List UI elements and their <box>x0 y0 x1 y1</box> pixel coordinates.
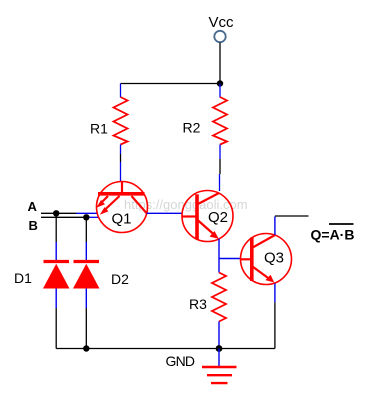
junction node R2 top <box>217 80 223 86</box>
label B <box>29 218 38 233</box>
label GND <box>166 353 196 369</box>
transistor Q1 <box>96 182 147 233</box>
diode D2 <box>73 262 100 289</box>
junction node input B <box>83 214 89 220</box>
svg-text:Vcc: Vcc <box>209 14 235 31</box>
wire Q1 collector stub top <box>120 162 122 182</box>
svg-text:R1: R1 <box>90 121 108 137</box>
label Q3 <box>264 250 284 267</box>
label Vcc <box>209 14 235 31</box>
label Q1 <box>112 211 132 228</box>
transistor Q3 <box>241 234 292 285</box>
resistor R2 <box>213 97 227 145</box>
svg-text:Q3: Q3 <box>264 250 284 267</box>
wire input A <box>41 212 98 214</box>
svg-text:D2: D2 <box>111 271 129 287</box>
wire input B <box>41 216 99 218</box>
wire D1 bottom stub <box>55 289 57 309</box>
wire output <box>275 215 309 217</box>
ground <box>202 349 237 384</box>
wire Vcc vertical <box>219 43 221 85</box>
wire ground rail <box>56 348 275 350</box>
svg-text:GND: GND <box>166 353 196 369</box>
wire D2 top stub <box>85 242 87 262</box>
label output Q=A·B <box>311 224 355 243</box>
transistor Q2 <box>182 191 233 242</box>
wire input B vertical <box>85 217 87 242</box>
junction node R3 ground <box>216 345 223 352</box>
wire D1 to ground rail <box>55 308 57 349</box>
label D2 <box>111 271 129 287</box>
wire R1 to Q1 <box>120 154 122 162</box>
resistor R1 <box>114 97 128 145</box>
wire Q1 collector to Q2 base <box>147 212 182 214</box>
wire D2 bottom stub <box>85 289 87 309</box>
label R1 <box>90 121 108 137</box>
label A <box>28 199 38 214</box>
wire R3 bottom stub <box>218 322 220 349</box>
wire R1 top stub <box>120 84 122 98</box>
wire Q2 collector stub top <box>219 174 221 191</box>
wire input A vertical <box>55 213 57 242</box>
svg-text:A: A <box>28 199 38 214</box>
svg-text:R3: R3 <box>189 296 207 312</box>
wire Q3 collector stub <box>274 217 276 236</box>
resistor R3 <box>212 273 226 322</box>
label Q2 <box>208 209 228 226</box>
svg-text:Q2: Q2 <box>208 209 228 226</box>
label R3 <box>189 296 207 312</box>
watermark <box>124 197 248 212</box>
svg-text:D1: D1 <box>14 270 32 286</box>
svg-text:R2: R2 <box>183 120 201 136</box>
wire top horizontal <box>121 83 221 85</box>
wire Q2 emitter to Q3 base <box>219 258 241 260</box>
svg-text:Q=A·B: Q=A·B <box>311 227 355 243</box>
junction node input A <box>53 210 59 216</box>
wire R2 top stub <box>219 84 221 98</box>
wire Q2 emitter stub <box>218 239 220 273</box>
label D1 <box>14 270 32 286</box>
diode D1 <box>43 262 70 289</box>
svg-text:Q1: Q1 <box>112 211 132 228</box>
Vcc terminal <box>214 31 225 42</box>
wire Q3 emitter stub <box>274 284 276 303</box>
label R2 <box>183 120 201 136</box>
wire D1 top stub <box>55 242 57 262</box>
wire R1 bottom stub <box>120 145 122 155</box>
wire Q3 emitter down <box>274 302 276 348</box>
wire D2 to ground rail <box>85 308 87 349</box>
junction node D2 ground <box>83 345 89 351</box>
svg-text:B: B <box>29 218 38 233</box>
wire R2 bottom stub <box>219 145 221 160</box>
wire R2 to Q2 <box>219 159 221 174</box>
